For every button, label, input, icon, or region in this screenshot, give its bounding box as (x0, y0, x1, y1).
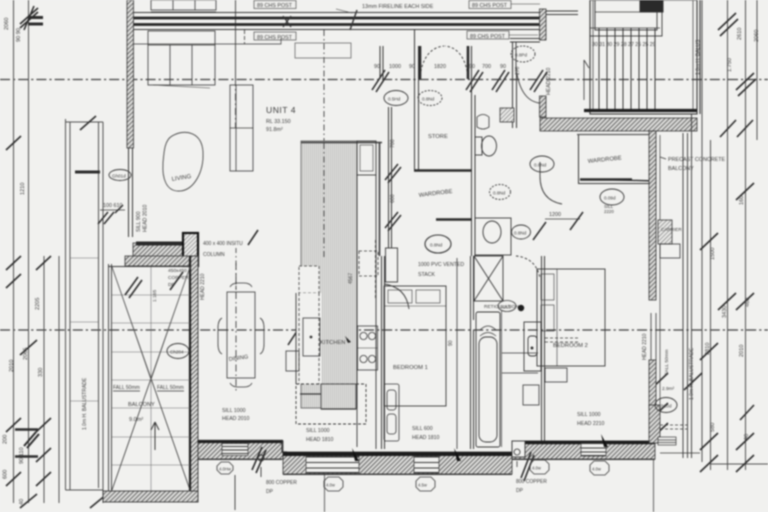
svg-text:1820: 1820 (434, 64, 446, 70)
pantry dashed box (296, 384, 366, 424)
svg-text:2810: 2810 (705, 343, 711, 355)
tick right y440 group (650, 403, 754, 472)
svg-text:HEAD 1810: HEAD 1810 (412, 435, 440, 441)
ensuite/bed2 wall (542, 256, 545, 447)
balcony tick marks (125, 272, 183, 298)
stair arrow line (584, 60, 589, 100)
bottom wall mid hatched (283, 452, 512, 474)
wall break mark (350, 10, 357, 30)
right balcony balustrade lines (683, 114, 692, 458)
svg-text:90: 90 (744, 434, 750, 440)
dark dim bar at y170 (75, 171, 100, 174)
ensuite bath tub (476, 312, 500, 447)
right dim line 2 (727, 0, 729, 470)
wall jog step (282, 441, 287, 452)
tick pair y262 (6, 256, 51, 270)
balcony diagonal X (112, 267, 190, 490)
oval tag d10 (655, 398, 677, 413)
bed2 bed (537, 269, 605, 366)
svg-text:700: 700 (390, 139, 396, 148)
stair west window (546, 11, 578, 15)
svg-text:UNIT 4: UNIT 4 (266, 105, 296, 115)
bed2 room dim 1200 (533, 212, 583, 240)
svg-text:1.0m H. BALUSTRADE: 1.0m H. BALUSTRADE (82, 377, 88, 430)
window arrow bed2 (601, 434, 608, 447)
label box 89 CHS POST below-left (254, 32, 296, 41)
carrier block on right balcony (658, 220, 682, 258)
bedroom1 door leaf (386, 248, 398, 282)
tick group y455 (36, 448, 51, 462)
balcony up arrow (151, 422, 159, 450)
bath vanity (475, 218, 511, 255)
svg-text:1GL5: 1GL5 (500, 305, 511, 310)
svg-text:COLUMN: COLUMN (203, 252, 225, 258)
bed2 door arc lower (516, 256, 540, 278)
leader from fireline label (133, 30, 281, 44)
svg-text:4.0w: 4.0w (592, 467, 602, 472)
svg-text:90: 90 (500, 64, 506, 70)
bed2 east wall lower segment (649, 360, 656, 409)
left exterior wall hatched (127, 0, 134, 148)
door3 jamb dark (467, 46, 470, 79)
svg-text:90: 90 (374, 64, 380, 70)
svg-text:1:165: 1:165 (152, 289, 158, 302)
balcony left edge double (109, 264, 112, 491)
wall strip dark top (136, 242, 183, 246)
wardrobe2 top inner line (577, 134, 650, 136)
lower left wall hatched strip (133, 243, 183, 263)
door hinge dot (518, 305, 524, 311)
pantry inner dark line (300, 394, 356, 409)
svg-text:2060: 2060 (754, 30, 760, 42)
svg-text:90: 90 (469, 64, 475, 70)
svg-text:330: 330 (38, 368, 44, 377)
svg-text:FALL 50mm: FALL 50mm (157, 385, 184, 391)
svg-text:1000: 1000 (389, 64, 401, 70)
stair treads (599, 28, 655, 112)
svg-text:Ch20d: Ch20d (658, 404, 672, 409)
svg-text:600: 600 (3, 470, 9, 479)
cooktop (358, 326, 378, 370)
svg-text:2065: 2065 (23, 348, 29, 360)
svg-text:1.750: 1.750 (727, 58, 733, 72)
svg-text:800 COPPER: 800 COPPER (266, 480, 297, 486)
window arrow bed1 (454, 448, 461, 461)
left dim line 1 (13, 0, 15, 503)
oval tag d09 (512, 225, 531, 239)
window opening left (222, 444, 248, 456)
svg-text:460: 460 (745, 298, 751, 307)
svg-text:1210: 1210 (20, 183, 26, 195)
dark block on landing (640, 0, 663, 12)
svg-text:89 CHS POST: 89 CHS POST (257, 35, 293, 41)
tick right y300 pair (718, 293, 754, 310)
corridor tick 1 (385, 164, 401, 183)
svg-text:89 CHS POST: 89 CHS POST (472, 3, 508, 9)
landing return wall right (662, 0, 664, 12)
stair bottom hatched band (540, 118, 697, 131)
svg-text:160: 160 (739, 196, 745, 205)
copper dp note (168, 268, 189, 288)
window opening bed1 (414, 457, 439, 474)
kitchen louvre stripe band (301, 141, 382, 408)
svg-text:SILL 900: SILL 900 (136, 211, 142, 232)
hex tag w2 (324, 477, 343, 491)
tick cluster top (20, 6, 38, 30)
oval tag d05 (425, 235, 451, 253)
hexagon leader down (234, 475, 236, 510)
svg-text:1500: 1500 (710, 248, 716, 260)
stair west wall hatched upper (540, 9, 547, 40)
svg-text:1200: 1200 (549, 212, 561, 218)
oval tag d07 (530, 156, 554, 172)
svg-text:Ch204: Ch204 (170, 350, 184, 355)
fall 50mm left (113, 385, 184, 391)
corner window right (658, 437, 676, 445)
svg-text:4.5w: 4.5w (418, 483, 428, 488)
oval tag d03 (418, 91, 442, 106)
top wall upper face line (133, 12, 545, 14)
tick group y500 (20, 494, 107, 508)
vertical dash-dot through dining table (235, 263, 237, 392)
dim 100 610 (98, 203, 125, 224)
svg-text:2010: 2010 (739, 345, 745, 357)
right dim line 3 (745, 0, 747, 470)
svg-text:BEDROOM 1: BEDROOM 1 (393, 365, 428, 371)
svg-text:HEAD 2210: HEAD 2210 (546, 67, 552, 95)
bed2 nightstand (523, 368, 567, 405)
wall bottom edge line (198, 460, 655, 475)
svg-text:1.0m H. BALUSTRADE: 1.0m H. BALUSTRADE (689, 347, 695, 400)
side cabinet (286, 351, 299, 371)
bed foot dashed lines (545, 338, 580, 342)
ensuite counter edge (502, 311, 539, 447)
walkway left edge (65, 119, 67, 490)
bottom wall left segment hatched (198, 441, 283, 459)
fridge nook white (296, 293, 321, 384)
hex tag w3 (416, 477, 435, 491)
precast balcony label (668, 157, 726, 172)
kitchen bench top column (357, 141, 376, 175)
door opening dim texts (374, 64, 506, 70)
vertical dashed grid continuation (235, 79, 237, 128)
stair enclosure inner line (593, 0, 693, 110)
bedroom1 right wall (471, 256, 474, 449)
svg-text:400 x 400 INSITU: 400 x 400 INSITU (203, 241, 243, 247)
fridge nook left edge (295, 293, 297, 384)
sill head note below dining (222, 408, 250, 422)
svg-text:0.8Nd: 0.8Nd (430, 243, 443, 248)
small dashed drop left (244, 30, 246, 44)
svg-text:0.8Nd: 0.8Nd (422, 97, 435, 102)
balcony right wall inner dark line (189, 256, 191, 502)
svg-text:0.5Hd: 0.5Hd (388, 97, 401, 102)
insitu column (183, 233, 198, 266)
corridor tick 2 (385, 212, 401, 231)
tick at y145 (6, 136, 21, 150)
entry door arc (516, 42, 539, 103)
left window double line (129, 148, 133, 237)
svg-text:HEAD 2010: HEAD 2010 (222, 416, 250, 422)
wardrobe2 rail (580, 178, 632, 180)
svg-text:13mm FIRELINE EACH SIDE: 13mm FIRELINE EACH SIDE (362, 4, 434, 10)
dp mark right (514, 449, 534, 481)
bedroom1 left wall (382, 256, 385, 449)
stair west wall hatched lower (540, 96, 547, 117)
left dim line 3 (43, 256, 45, 503)
fridge (303, 318, 320, 356)
bottom wall mid dark top (283, 452, 512, 456)
vent stack note (418, 262, 464, 278)
precast leader (660, 157, 666, 159)
svg-text:FALL 50mm: FALL 50mm (664, 349, 670, 375)
door1 jamb (380, 46, 383, 79)
window opening bed2 (581, 443, 606, 456)
bed1 dresser (384, 384, 399, 441)
dishwasher dashed (359, 251, 378, 276)
svg-text:1000 PVC VENTED: 1000 PVC VENTED (418, 262, 464, 268)
sill note bed1 (412, 426, 440, 441)
walkway right inner (102, 122, 104, 503)
label box 89 CHS POST below-right (467, 31, 538, 40)
wardrobe2 box (578, 135, 652, 184)
vertical dashed line kitchen axis (323, 30, 325, 262)
svg-text:9.0m²: 9.0m² (129, 417, 143, 423)
door2 jambs dark (419, 46, 422, 79)
balcony label (128, 402, 155, 423)
svg-text:HEAD 1810: HEAD 1810 (306, 437, 334, 443)
svg-text:STACK: STACK (418, 272, 435, 278)
svg-text:DP: DP (516, 488, 524, 494)
oval tag d06 (490, 185, 511, 200)
dp circle glyph left (258, 455, 264, 477)
hex tag w5 (590, 461, 609, 475)
label box 89 CHS POST top-left (254, 1, 296, 10)
window opening kitchen (306, 457, 359, 474)
living room label blob (163, 132, 203, 191)
top wall heavy band 2 (133, 23, 545, 26)
hex tag w1 (217, 462, 233, 474)
oval tag d04 (511, 46, 535, 62)
window above wall left (151, 0, 216, 12)
svg-text:89 CHS POST: 89 CHS POST (257, 3, 293, 9)
copper dp note right (516, 479, 547, 494)
dim stub bars bottom (15, 430, 38, 457)
bed1 (384, 286, 446, 406)
svg-text:SILL 600: SILL 600 (412, 426, 433, 432)
sill note kitchen (306, 428, 334, 443)
window arrow kitchen (352, 448, 359, 461)
window band below wall (kitchen top) (295, 43, 351, 58)
svg-text:0.8Nd: 0.8Nd (514, 231, 527, 236)
wall stub bars at left dims (28, 18, 43, 25)
svg-text:HEAD 2210: HEAD 2210 (642, 333, 648, 360)
svg-text:580: 580 (710, 423, 716, 432)
left dim line 4 (58, 256, 60, 503)
walkway ties (70, 258, 98, 401)
svg-text:4.0w: 4.0w (532, 466, 542, 471)
svg-text:700: 700 (482, 64, 491, 70)
bottom wall right dark top (512, 441, 655, 444)
walkway left inner (69, 122, 71, 490)
bed2 east window (651, 313, 656, 360)
svg-text:800 COPPER: 800 COPPER (516, 479, 547, 485)
bed2 door arc (540, 162, 562, 204)
column label (203, 241, 243, 258)
vertical leader below bottom wall right (653, 456, 655, 512)
tick group y425 (6, 418, 51, 432)
armchair right (230, 85, 253, 171)
oval tag bath small (498, 301, 516, 312)
hall wall right of bath (513, 42, 517, 128)
oval tag d08 (600, 189, 624, 214)
fridge nook dashed edges (299, 293, 319, 384)
svg-text:RL 33.150: RL 33.150 (266, 119, 291, 125)
svg-text:CARRIER: CARRIER (661, 227, 682, 232)
balcony small diagonals (112, 267, 190, 380)
tick pair top right (718, 13, 738, 36)
tick y347 (20, 340, 37, 355)
svg-text:SILL 1000: SILL 1000 (577, 412, 601, 418)
pantry hatch block (321, 384, 356, 409)
svg-text:90: 90 (448, 340, 454, 346)
copper dp note left (266, 480, 297, 495)
balcony top wall hatched (125, 256, 198, 266)
svg-text:450x450: 450x450 (168, 268, 187, 274)
shower hatched block (500, 108, 514, 122)
svg-text:90 110: 90 110 (19, 447, 25, 464)
svg-text:90 90: 90 90 (16, 28, 22, 42)
right end wall hatched vertical (649, 405, 660, 443)
balcony2 bottom dashed (660, 425, 687, 429)
kitchen upper cabinet dashed (299, 266, 319, 293)
svg-text:BALCONY: BALCONY (128, 402, 155, 408)
svg-text:4567: 4567 (348, 273, 354, 284)
svg-text:0.8Nd: 0.8Nd (493, 191, 506, 196)
balcony2 bottom line (660, 452, 700, 454)
dp mark left (252, 447, 266, 473)
balcony right wall dark (190, 256, 198, 502)
right dim line x702 (701, 0, 703, 462)
boundary bottom corner (66, 489, 104, 491)
vertical leader below bottom wall kitchen (324, 456, 326, 512)
column leader dashed (235, 248, 237, 290)
grid line A (horizontal dash-dot upper) (0, 79, 768, 81)
svg-text:2220: 2220 (604, 209, 614, 214)
svg-text:HEAD 2210: HEAD 2210 (577, 421, 605, 427)
svg-text:BALCONY: BALCONY (668, 166, 694, 172)
sill note bed2 (577, 412, 605, 427)
tick right y350 (650, 343, 718, 390)
bowtie junction mark (283, 16, 291, 27)
vertical grid line at living room (235, 0, 237, 79)
svg-text:2610: 2610 (737, 28, 743, 40)
svg-text:STORE: STORE (428, 134, 448, 140)
toilet wc top (475, 136, 497, 156)
svg-text:BEDROOM 2: BEDROOM 2 (553, 343, 588, 349)
walkway right edge (98, 122, 100, 488)
wardrobe1 rail (436, 218, 471, 220)
store bottom wall (414, 169, 472, 172)
linen cupboard X (474, 256, 503, 301)
svg-text:Gh01d: Gh01d (112, 174, 126, 179)
svg-text:91.8m²: 91.8m² (266, 127, 283, 133)
kitchen pointer (345, 336, 351, 343)
svg-text:HEAD 2210: HEAD 2210 (200, 273, 206, 300)
svg-text:4.0w: 4.0w (326, 483, 336, 488)
svg-text:HEAD 2010: HEAD 2010 (143, 204, 149, 232)
grid line B (horizontal dash-dot lower) (0, 329, 768, 331)
svg-text:89 CHS POST: 89 CHS POST (470, 34, 506, 40)
store room walls (415, 30, 419, 170)
tick right y190 (736, 183, 754, 200)
ensuite wc (524, 322, 541, 371)
right dim line 1 (710, 140, 712, 470)
bottom wall right segment hatched (512, 441, 655, 459)
living/corridor divider wall (389, 107, 392, 256)
fall underline (113, 390, 184, 392)
label 13mm FIRELINE EACH SIDE (336, 4, 434, 13)
svg-text:200: 200 (3, 435, 9, 444)
bed2 room east wall (649, 131, 656, 300)
svg-text:0.8Pd: 0.8Pd (515, 53, 527, 58)
bottom wall left dark top (198, 440, 283, 443)
balcony oval tag (167, 344, 189, 359)
oval tag d02 (384, 91, 408, 106)
svg-text:40: 40 (19, 499, 25, 505)
dp box right wall (512, 441, 525, 457)
svg-text:SILL 1000: SILL 1000 (306, 428, 330, 434)
stair enclosure outer box (590, 0, 697, 114)
svg-text:KITCHEN: KITCHEN (320, 340, 345, 346)
svg-text:2060: 2060 (4, 18, 10, 30)
svg-text:1.0m H. BALUS: 1.0m H. BALUS (696, 39, 702, 75)
tick right y75 (736, 73, 756, 96)
wardrobe2 shelf line (604, 180, 655, 182)
tick right y240 (700, 233, 718, 250)
right dim line 4 (756, 0, 758, 140)
bedroom1 robe line (456, 258, 458, 449)
svg-text:SILL 1000: SILL 1000 (222, 408, 246, 414)
walkway top cap (66, 121, 104, 123)
stair bottom wall dark (584, 109, 697, 112)
unit 4 title (266, 105, 296, 133)
tread top tie line (590, 27, 660, 29)
svg-text:0.09d: 0.09d (604, 196, 616, 201)
svg-text:DP: DP (266, 489, 274, 495)
tick pair y268 light (6, 274, 21, 288)
top wall heavy band 1 (133, 17, 545, 20)
svg-text:PRECAST CONCRETE: PRECAST CONCRETE (668, 157, 726, 163)
sofa top (window seat) (148, 31, 215, 88)
left dim line 2 (28, 0, 30, 503)
svg-text:2.9m²: 2.9m² (662, 386, 675, 392)
stair east outer wall (699, 0, 701, 114)
tick group y478 (6, 472, 51, 486)
label box 89 CHS POST top-right (469, 1, 540, 10)
bath top basin arc (477, 115, 489, 130)
dining table (218, 283, 264, 387)
balcony top inner line (108, 266, 190, 268)
oval tag d01 (109, 170, 131, 181)
svg-text:0.8Nd: 0.8Nd (534, 163, 547, 168)
svg-text:90: 90 (409, 64, 415, 70)
bedroom1 door arc (384, 284, 409, 309)
double door arcs dashed (420, 46, 468, 76)
tick at planter top (80, 116, 96, 130)
store/bath divider wall (472, 46, 476, 256)
svg-text:600: 600 (390, 194, 396, 203)
